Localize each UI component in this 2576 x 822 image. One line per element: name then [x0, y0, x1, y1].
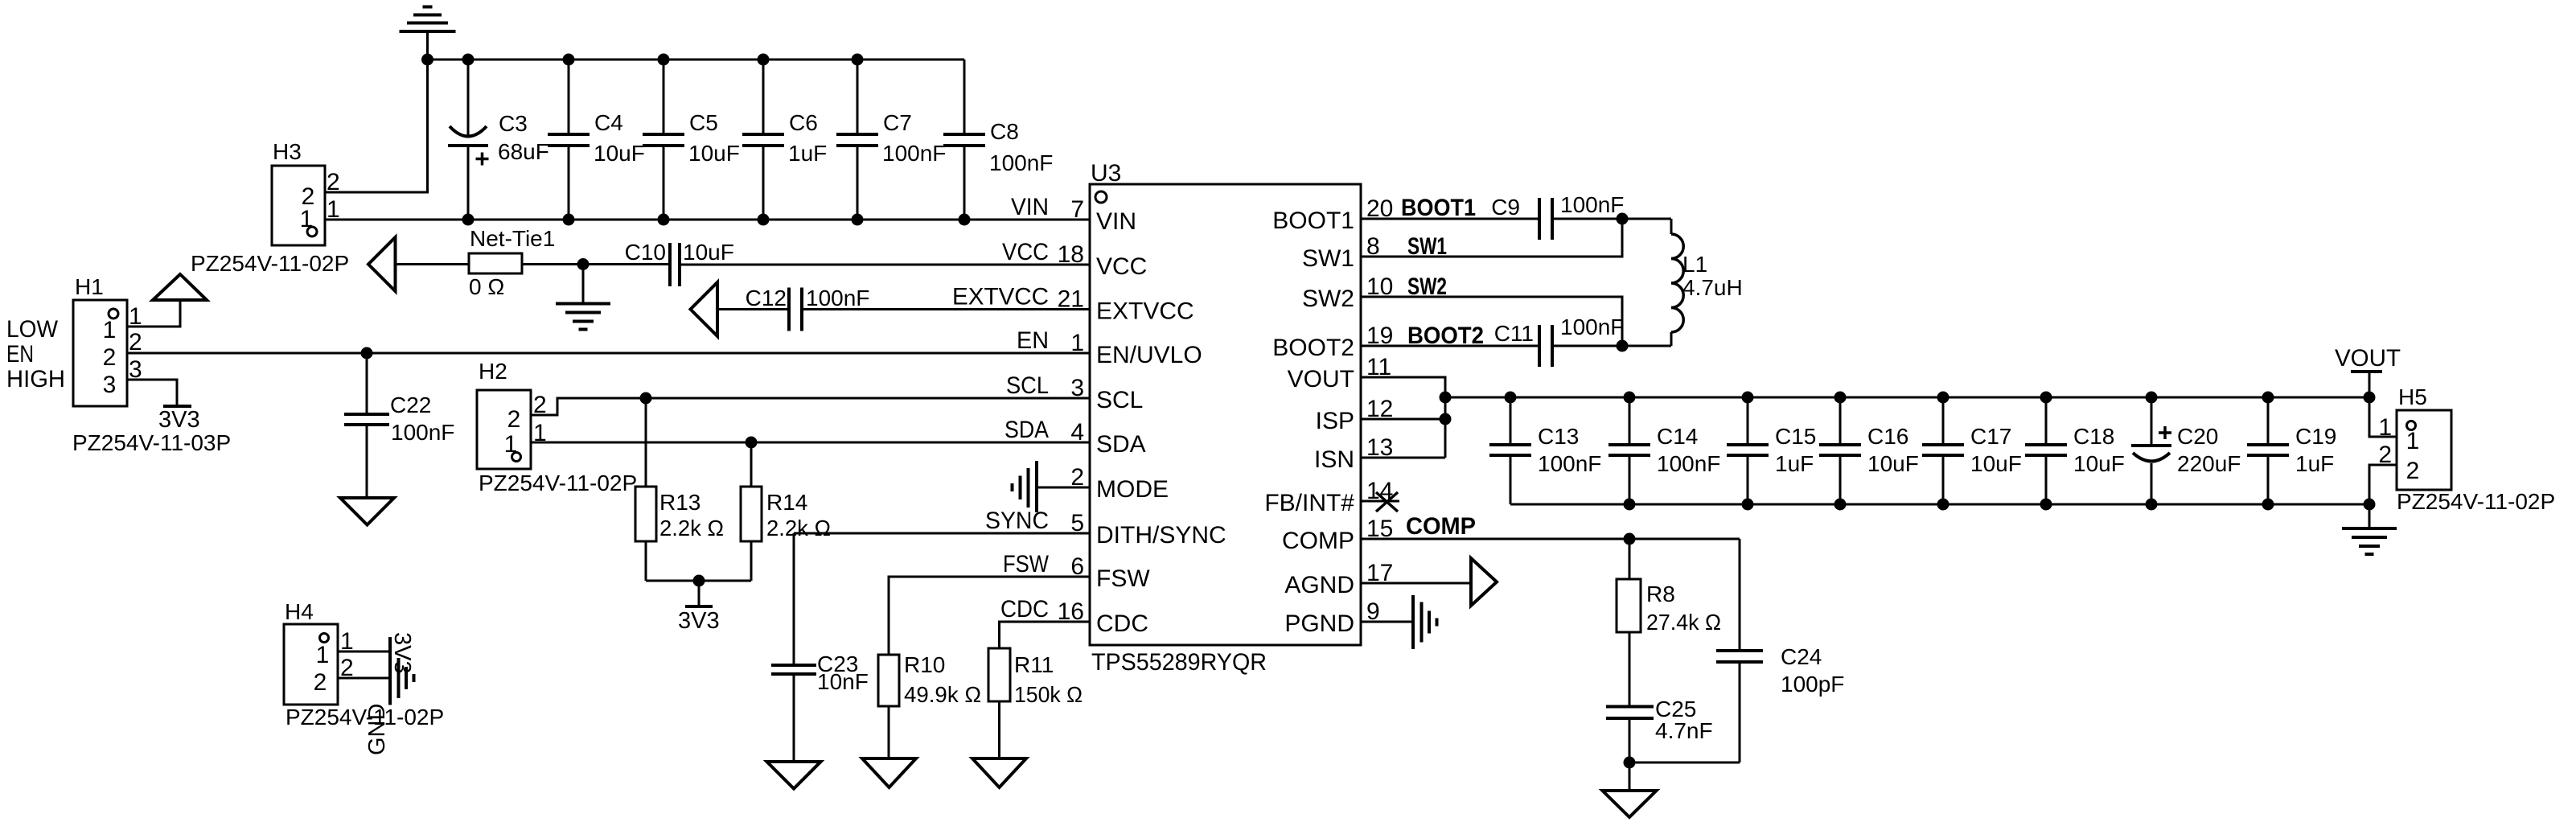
svg-text:C7: C7 [883, 110, 912, 135]
ground arrow (AGND) [1471, 558, 1497, 606]
junction (COMP / R8) [1624, 533, 1636, 545]
junction (node A: C9/SW1/L1) [1617, 213, 1629, 225]
junction (C3 bottom) [462, 214, 475, 226]
capacitor C8 100nF [943, 60, 1053, 220]
pin 1 [1070, 330, 1084, 356]
svg-text:SDA: SDA [1096, 431, 1146, 458]
svg-text:100nF: 100nF [806, 286, 869, 310]
svg-text:1: 1 [1070, 330, 1084, 356]
svg-text:3V3: 3V3 [389, 632, 415, 674]
resistor Net-Tie1 0 Ohm [469, 226, 555, 299]
svg-text:49.9k Ω: 49.9k Ω [904, 682, 981, 707]
junction (C4 bottom) [563, 214, 575, 226]
power 3V3 (H1 pin3) [158, 406, 200, 433]
svg-text:LOW: LOW [6, 316, 59, 343]
svg-text:68uF: 68uF [498, 139, 549, 164]
svg-text:C22: C22 [390, 393, 431, 417]
junction (node B: C11/SW2/L1) [1617, 340, 1629, 352]
ground (below C22) [340, 498, 394, 525]
net label VIN [1011, 194, 1049, 220]
wire (C9 to node A) [1552, 218, 1671, 220]
svg-text:3: 3 [103, 372, 117, 398]
wire EN (H1 pin2 to U3 EN/UVLO pin 1) [127, 352, 1090, 355]
wire SDA (H2 pin1 to U3 SDA pin 4) [531, 442, 1090, 444]
junction (C16 bottom) [1834, 499, 1847, 511]
svg-text:2: 2 [2406, 458, 2420, 484]
svg-text:EN: EN [6, 341, 34, 368]
svg-text:VIN: VIN [1011, 194, 1049, 220]
net label EN [1017, 327, 1049, 354]
svg-text:GND: GND [364, 704, 390, 755]
capacitor C13 100nF [1489, 397, 1601, 504]
capacitor C10 10uF [625, 240, 734, 286]
pin 15 [1366, 516, 1393, 542]
wire (H1 pin1) [127, 300, 180, 327]
svg-text:C10: C10 [625, 240, 666, 265]
wire (gnd arrow to C12) [717, 308, 789, 310]
ground (under net-tie junction) [556, 265, 610, 330]
svg-text:R11: R11 [1014, 652, 1054, 677]
svg-text:DITH/SYNC: DITH/SYNC [1096, 522, 1226, 549]
svg-text:2: 2 [314, 669, 327, 696]
svg-text:1uF: 1uF [1775, 451, 1814, 476]
svg-text:H5: H5 [2398, 384, 2427, 409]
wire (output gnd bus) [1510, 503, 2369, 506]
wire (H5 pin1 to VOUT rail) [2369, 397, 2397, 437]
svg-text:C9: C9 [1491, 195, 1520, 220]
svg-text:ISP: ISP [1316, 408, 1354, 434]
svg-text:4.7uH: 4.7uH [1682, 275, 1743, 300]
ground arrow (VCC net-tie GND) [368, 237, 396, 291]
svg-text:100nF: 100nF [1560, 192, 1624, 217]
junction (C5 bottom) [658, 214, 670, 226]
inductor L1 4.7uH [1671, 219, 1743, 346]
svg-text:10uF: 10uF [2073, 451, 2125, 476]
pin 10 [1366, 273, 1393, 300]
svg-text:BOOT1: BOOT1 [1272, 208, 1354, 234]
wire (H3 pin2 to GND) [325, 60, 428, 192]
junction (VOUT / H5 pin1) [2364, 392, 2376, 404]
junction (C14 top) [1624, 392, 1636, 404]
svg-text:10uF: 10uF [1867, 451, 1919, 476]
svg-text:21: 21 [1058, 286, 1084, 313]
svg-text:C15: C15 [1775, 424, 1816, 449]
svg-text:FSW: FSW [1003, 551, 1050, 577]
svg-text:SW1: SW1 [1302, 245, 1354, 272]
junction (C18 top) [2040, 392, 2052, 404]
svg-text:TPS55289RYQR: TPS55289RYQR [1091, 649, 1267, 676]
svg-text:18: 18 [1058, 241, 1084, 268]
svg-text:R13: R13 [659, 490, 700, 515]
svg-text:10nF: 10nF [817, 669, 869, 694]
capacitor C17 10uF [1922, 397, 2022, 504]
junction (C17 top) [1937, 392, 1949, 404]
svg-text:2: 2 [327, 169, 340, 195]
junction (C18 bottom) [2040, 499, 2052, 511]
wire ISN (U3 pin 13) [1361, 457, 1445, 459]
power flag (up arrow on H1 pin1) [153, 274, 207, 300]
capacitor C16 10uF [1819, 397, 1919, 504]
junction (ISP tap) [1440, 413, 1452, 425]
svg-text:ISN: ISN [1314, 446, 1354, 473]
capacitor C14 100nF [1608, 397, 1720, 504]
svg-text:R8: R8 [1646, 582, 1675, 606]
junction (C6 bottom) [758, 214, 770, 226]
connector H1 PZ254V-11-03P [72, 274, 231, 455]
junction (C20 top) [2146, 392, 2158, 404]
junction (gnd stem / top bus) [421, 54, 433, 66]
capacitor C6 1uF [742, 60, 827, 220]
junction (C6 top) [758, 54, 770, 66]
svg-text:FB/INT#: FB/INT# [1264, 490, 1354, 516]
resistor R13 2.2k [635, 398, 724, 581]
pin 19 [1366, 323, 1393, 349]
wire SW1 (U3 pin 8 to node A) [1361, 219, 1622, 257]
junction (C19 top) [2262, 392, 2274, 404]
net label EN [6, 341, 34, 368]
junction (gnd / H5 pin2) [2364, 499, 2376, 511]
svg-text:100nF: 100nF [1538, 451, 1601, 476]
svg-text:VOUT: VOUT [1288, 366, 1354, 393]
wire ISP (U3 pin 12) [1361, 418, 1445, 421]
wire (H1 pin3 to 3V3) [127, 380, 177, 406]
svg-text:C5: C5 [689, 110, 718, 135]
svg-text:PZ254V-11-02P: PZ254V-11-02P [191, 251, 349, 276]
pin 8 [1366, 233, 1380, 260]
capacitor C20 220uF (polarized) [2131, 397, 2241, 504]
junction (C13 top) [1505, 392, 1517, 404]
svg-text:100nF: 100nF [989, 150, 1053, 175]
svg-text:FSW: FSW [1096, 565, 1150, 592]
svg-text:100nF: 100nF [882, 141, 946, 166]
svg-text:COMP: COMP [1282, 528, 1354, 554]
resistor R10 49.9k [878, 652, 981, 758]
wire SCL (H2 pin2 to U3 SCL pin 3) [531, 398, 1090, 415]
svg-text:CDC: CDC [1096, 610, 1148, 637]
ground (below C23) [767, 762, 821, 789]
junction (3V3 tie) [693, 575, 705, 587]
svg-text:C8: C8 [990, 119, 1019, 144]
junction (C7 top) [852, 54, 864, 66]
wire SYNC (U3 DITH/SYNC pin 5 to C23) [794, 532, 1090, 535]
pin 18 [1058, 241, 1084, 268]
connector H5 PZ254V-11-02P [2378, 384, 2555, 514]
svg-text:2: 2 [507, 406, 521, 433]
no-connect (MODE pin 2 gnd-style flag) [1013, 461, 1091, 512]
capacitor C3 68uF (polarized) [448, 60, 549, 220]
svg-text:H2: H2 [479, 359, 507, 384]
capacitor C12 100nF [746, 286, 870, 331]
wire (H4 pin1 to 3V3) [338, 651, 390, 653]
svg-text:C18: C18 [2073, 424, 2114, 449]
pin 11 [1366, 354, 1391, 380]
svg-text:PZ254V-11-03P: PZ254V-11-03P [72, 430, 231, 455]
svg-text:27.4k Ω: 27.4k Ω [1646, 610, 1721, 635]
svg-text:PZ254V-11-02P: PZ254V-11-02P [2397, 489, 2555, 514]
wire (VIN bus: H3 pin1 to U3 VIN pin 7) [325, 219, 1090, 221]
net label LOW [6, 316, 59, 343]
svg-text:16: 16 [1058, 598, 1084, 625]
wire BOOT1 (U3 pin 20 to C9) [1361, 218, 1539, 220]
svg-text:C19: C19 [2295, 424, 2336, 449]
ground arrow (EXTVCC gnd) [691, 282, 718, 336]
svg-text:L1: L1 [1682, 252, 1707, 277]
svg-text:EN/UVLO: EN/UVLO [1096, 342, 1202, 368]
wire EXTVCC (C12 to U3 pin 21) [802, 308, 1090, 310]
svg-text:C13: C13 [1538, 424, 1579, 449]
svg-text:VCC: VCC [1002, 239, 1049, 265]
svg-text:2: 2 [1070, 464, 1084, 491]
net label BOOT1 [1401, 195, 1476, 221]
junction (EN / C22) [361, 347, 373, 360]
ground (COMP network) [1603, 762, 1657, 817]
svg-text:R10: R10 [904, 652, 945, 677]
svg-text:C16: C16 [1867, 424, 1908, 449]
svg-text:MODE: MODE [1096, 476, 1169, 503]
svg-text:PGND: PGND [1284, 610, 1354, 637]
net label CDC [1000, 596, 1049, 623]
pin 14 [1366, 478, 1393, 504]
pin 2 [1070, 464, 1084, 491]
resistor R8 27.4k [1617, 539, 1721, 706]
wire (Net-Tie1 to C10) [522, 263, 670, 265]
wire SW2 (U3 pin 10 to node B) [1361, 297, 1622, 346]
svg-text:C12: C12 [746, 286, 787, 310]
svg-text:10uF: 10uF [1970, 451, 2022, 476]
pin 16 [1058, 598, 1084, 625]
svg-text:SDA: SDA [1005, 417, 1049, 443]
svg-text:VIN: VIN [1096, 208, 1136, 235]
net label FSW [1003, 551, 1050, 577]
junction (VOUT rail tap) [1440, 392, 1452, 404]
svg-text:VCC: VCC [1096, 253, 1147, 280]
wire VOUT (U3 pin 11) [1361, 377, 1445, 458]
svg-text:HIGH: HIGH [6, 366, 65, 393]
svg-text:6: 6 [1070, 553, 1084, 580]
svg-text:C24: C24 [1781, 644, 1822, 669]
wire (H5 pin2 to gnd) [2369, 465, 2397, 504]
svg-text:SCL: SCL [1006, 372, 1049, 399]
capacitor C19 1uF [2247, 397, 2336, 504]
capacitor C22 100nF [344, 353, 454, 498]
svg-text:U3: U3 [1091, 160, 1121, 187]
capacitor C11 100nF [1494, 314, 1625, 367]
pin 6 [1070, 553, 1084, 580]
svg-text:100nF: 100nF [1560, 314, 1624, 339]
svg-text:100pF: 100pF [1781, 672, 1844, 697]
junction (C17 bottom) [1937, 499, 1949, 511]
svg-text:100nF: 100nF [1657, 451, 1720, 476]
pin 12 [1366, 396, 1393, 422]
svg-text:BOOT1: BOOT1 [1401, 195, 1476, 221]
svg-text:4.7nF: 4.7nF [1655, 718, 1713, 743]
svg-text:EN: EN [1017, 327, 1049, 354]
junction (C8 bottom) [959, 214, 971, 226]
wire CDC (U3 pin 16 to R11) [1000, 622, 1091, 648]
svg-text:H3: H3 [273, 139, 302, 164]
pin 9 [1366, 598, 1380, 625]
junction (SDA / R14) [746, 437, 758, 449]
wire (H4 pin2 to GND) [338, 677, 390, 680]
power VOUT flag [2335, 345, 2401, 397]
capacitor C4 10uF [548, 60, 645, 220]
junction (C19 bottom) [2262, 499, 2274, 511]
ground (below R10) [862, 758, 916, 787]
svg-text:Net-Tie1: Net-Tie1 [470, 226, 555, 251]
wire (R13/R14 bottoms) [646, 580, 751, 582]
svg-text:EXTVCC: EXTVCC [1096, 298, 1194, 325]
svg-text:3V3: 3V3 [678, 608, 720, 634]
capacitor C25 4.7nF [1606, 697, 1713, 762]
pin 21 [1058, 286, 1084, 313]
resistor R11 150k [988, 648, 1083, 758]
svg-text:CDC: CDC [1000, 596, 1049, 623]
ground (below R11) [972, 758, 1026, 787]
net label EXTVCC [952, 284, 1049, 310]
wire PGND (U3 pin 9) [1361, 621, 1413, 623]
svg-text:PZ254V-11-02P: PZ254V-11-02P [479, 471, 637, 495]
pin 7 [1070, 196, 1084, 223]
svg-text:C17: C17 [1970, 424, 2011, 449]
junction (VCC gnd tie) [577, 258, 590, 270]
svg-text:EXTVCC: EXTVCC [952, 284, 1049, 310]
pin 20 [1366, 195, 1393, 222]
svg-text:2.2k Ω: 2.2k Ω [766, 516, 831, 540]
svg-text:150k Ω: 150k Ω [1014, 682, 1083, 707]
svg-text:2: 2 [129, 329, 142, 356]
svg-text:10uF: 10uF [594, 141, 645, 166]
svg-text:BOOT2: BOOT2 [1272, 335, 1354, 361]
pin 3 [1070, 375, 1084, 401]
svg-text:H1: H1 [75, 274, 104, 299]
svg-text:2: 2 [103, 344, 117, 371]
net label SYNC [985, 508, 1049, 534]
ground (output) [2342, 504, 2397, 554]
svg-text:AGND: AGND [1284, 572, 1354, 598]
connector H3 PZ254V-11-02P [191, 139, 349, 276]
net label SW2 [1407, 273, 1447, 300]
capacitor C7 100nF [836, 60, 946, 220]
wire VCC (C10 to U3 VCC pin 18) [680, 264, 1090, 266]
svg-text:10uF: 10uF [688, 141, 740, 166]
power 3V3 (pull-up supply) [678, 581, 720, 634]
pin 13 [1366, 434, 1393, 461]
svg-text:10uF: 10uF [683, 240, 734, 265]
svg-text:C11: C11 [1494, 321, 1534, 346]
svg-text:1uF: 1uF [2295, 451, 2334, 476]
capacitor C23 10nF [771, 533, 869, 762]
svg-text:C20: C20 [2177, 424, 2218, 449]
wire (C25 to C24 bottom) [1629, 762, 1740, 764]
svg-text:C3: C3 [499, 111, 528, 136]
capacitor C18 10uF [2025, 397, 2125, 504]
wire (GND arrow to Net-Tie1) [396, 263, 470, 265]
svg-text:1: 1 [327, 196, 340, 223]
junction (C4 top) [563, 54, 575, 66]
wire (GND top bus) [428, 59, 965, 61]
svg-text:1: 1 [316, 642, 330, 668]
svg-text:2.2k Ω: 2.2k Ω [659, 516, 724, 540]
wire COMP (U3 pin 15 to R8/C24) [1361, 538, 1740, 540]
junction (C3 top) [462, 54, 475, 66]
svg-text:SYNC: SYNC [985, 508, 1049, 534]
svg-text:H4: H4 [285, 599, 314, 624]
net label BOOT2 [1407, 323, 1484, 349]
svg-text:C14: C14 [1657, 424, 1698, 449]
ground (PGND, sideways) [1413, 595, 1437, 649]
capacitor C9 100nF [1491, 192, 1624, 240]
svg-text:1uF: 1uF [788, 141, 827, 166]
connector H2 PZ254V-11-02P [477, 359, 637, 495]
wire (C11 to L1 bottom) [1552, 345, 1671, 347]
svg-text:VOUT: VOUT [2335, 345, 2401, 372]
junction (C7 bottom) [852, 214, 864, 226]
svg-text:1: 1 [103, 317, 117, 343]
IC U3 TPS55289RYQR [1090, 160, 1361, 676]
wire (VOUT rail bus) [1445, 397, 2369, 399]
capacitor C24 100pF [1716, 539, 1844, 762]
svg-text:1: 1 [2406, 428, 2420, 454]
svg-text:SW2: SW2 [1302, 286, 1354, 312]
wire FSW (U3 pin 6 to R10) [889, 577, 1090, 655]
pin 4 [1070, 419, 1084, 446]
wire AGND (U3 pin 17) [1361, 582, 1471, 585]
junction (C15 top) [1742, 392, 1754, 404]
svg-text:SCL: SCL [1096, 387, 1143, 413]
junction (gnd node) [1624, 757, 1636, 769]
junction (C5 top) [658, 54, 670, 66]
resistor R14 2.2k [741, 442, 831, 581]
junction (C14 bottom) [1624, 499, 1636, 511]
ground (H4 pin2, sideways) [364, 651, 414, 756]
connector H4 PZ254V-11-02P [284, 599, 444, 730]
svg-text:0 Ω: 0 Ω [469, 274, 504, 299]
power 3V3 (H4 pin1, rotated) [389, 632, 415, 674]
capacitor C5 10uF [643, 60, 740, 220]
svg-text:3: 3 [1070, 375, 1084, 401]
no-connect X (FB/INT# pin 14) [1361, 492, 1399, 512]
net label HIGH [6, 366, 65, 393]
junction (SCL / R13) [640, 393, 652, 405]
pin 17 [1366, 560, 1393, 586]
svg-text:3V3: 3V3 [158, 407, 200, 433]
svg-text:R14: R14 [766, 490, 807, 515]
pin 5 [1070, 510, 1084, 536]
wire BOOT2 (U3 pin 19 to C11) [1361, 345, 1539, 347]
net label SDA [1005, 417, 1049, 443]
net label COMP [1406, 513, 1476, 540]
svg-text:4: 4 [1070, 419, 1084, 446]
svg-text:7: 7 [1070, 196, 1084, 223]
svg-text:1: 1 [300, 206, 314, 232]
junction (C20 bottom) [2146, 499, 2158, 511]
capacitor C15 1uF [1727, 397, 1816, 504]
net label VCC [1002, 239, 1049, 265]
svg-text:C4: C4 [594, 110, 623, 135]
svg-text:220uF: 220uF [2177, 451, 2241, 476]
net label SW1 [1407, 233, 1447, 260]
junction (C15 bottom) [1742, 499, 1754, 511]
net label SCL [1006, 372, 1049, 399]
svg-text:5: 5 [1070, 510, 1084, 536]
junction (C16 top) [1834, 392, 1847, 404]
ground (input GND, above bulk caps) [400, 7, 456, 61]
svg-text:C6: C6 [789, 110, 818, 135]
svg-text:COMP: COMP [1406, 513, 1476, 540]
svg-text:100nF: 100nF [391, 420, 454, 445]
